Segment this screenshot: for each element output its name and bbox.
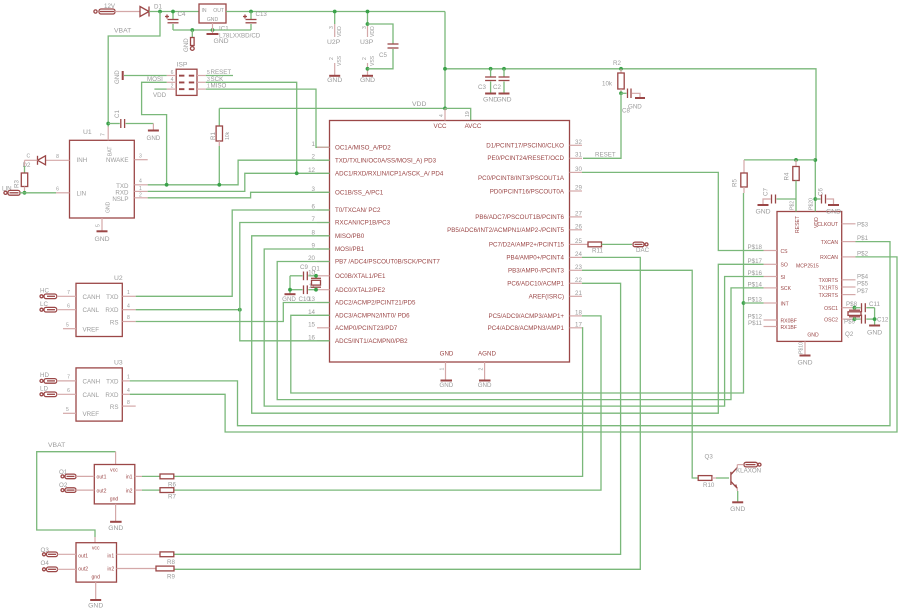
wire SI net MOSI pin9	[264, 249, 763, 406]
svg-text:OC0B/XTAL1/PE1: OC0B/XTAL1/PE1	[335, 273, 386, 280]
svg-text:TXD/TXLIN/OC0A/SS/MOSI_A) PD3: TXD/TXLIN/OC0A/SS/MOSI_A) PD3	[335, 157, 437, 164]
svg-text:10k: 10k	[225, 131, 231, 140]
svg-text:out2: out2	[78, 567, 88, 573]
wire SO net MISO pin8	[252, 236, 764, 413]
svg-text:RX1BF: RX1BF	[781, 325, 797, 331]
svg-text:7: 7	[67, 375, 70, 381]
svg-text:OUT: OUT	[213, 8, 224, 14]
svg-text:GND: GND	[207, 17, 219, 23]
svg-text:C3: C3	[478, 84, 486, 91]
capacitor C12	[855, 315, 889, 324]
connector O2	[59, 482, 94, 492]
svg-text:C1: C1	[114, 110, 121, 118]
wire ISP MISO to pin1	[206, 89, 330, 147]
svg-text:GND: GND	[88, 603, 103, 610]
svg-text:NSLP: NSLP	[112, 196, 128, 203]
svg-text:R8: R8	[167, 559, 175, 566]
svg-text:MOSI/PB1: MOSI/PB1	[335, 246, 365, 253]
svg-text:27: 27	[575, 210, 582, 217]
svg-text:R7: R7	[168, 494, 176, 501]
svg-text:GND: GND	[755, 209, 770, 216]
svg-text:C2: C2	[493, 84, 501, 91]
resistor R1	[210, 108, 231, 184]
MCU right pin numbers	[575, 139, 582, 328]
svg-text:out1: out1	[78, 554, 88, 560]
svg-text:D1/PCINT17/PSCIN0/CLKO: D1/PCINT17/PSCIN0/CLKO	[486, 143, 564, 150]
svg-text:GND: GND	[440, 350, 454, 357]
svg-text:VBAT: VBAT	[114, 28, 131, 35]
svg-text:C13: C13	[256, 11, 268, 18]
svg-text:OC1A/MISO_A/PD2: OC1A/MISO_A/PD2	[335, 145, 391, 152]
svg-text:P$2: P$2	[857, 250, 869, 257]
svg-text:ADC3/ACMPN2/INT0/ PD6: ADC3/ACMPN2/INT0/ PD6	[335, 313, 410, 320]
svg-text:R3: R3	[14, 180, 21, 188]
connector O4	[41, 560, 77, 571]
wire gnd rail under IC1	[173, 29, 251, 31]
svg-text:C9: C9	[300, 264, 308, 271]
svg-text:RXCAN/ICP1B/PC3: RXCAN/ICP1B/PC3	[335, 220, 391, 227]
svg-text:MISO: MISO	[211, 83, 227, 90]
wire crystal cap gnd	[874, 308, 876, 325]
svg-text:R10: R10	[703, 482, 715, 489]
ground MCP GND pin	[797, 341, 812, 366]
svg-text:D2: D2	[23, 162, 31, 169]
svg-text:VREF: VREF	[83, 411, 100, 418]
wire MCU pin7 RXCAN net to pin16	[240, 223, 330, 341]
svg-text:AVCC: AVCC	[465, 123, 482, 130]
svg-text:SI: SI	[781, 275, 786, 281]
wire ISP RESET	[206, 75, 233, 77]
ground via symbol GND	[183, 30, 194, 52]
svg-text:23: 23	[575, 264, 582, 271]
svg-text:GND: GND	[797, 360, 812, 367]
wire U2 TXD to MCU pin6	[122, 295, 135, 297]
capacitor C4	[165, 10, 186, 30]
svg-text:CANH: CANH	[83, 378, 101, 385]
wire U1 NWAKE stub	[134, 159, 147, 161]
svg-text:RS: RS	[110, 404, 119, 411]
svg-text:IC1: IC1	[219, 26, 229, 33]
wire 12V to D1	[115, 11, 140, 13]
svg-text:1: 1	[139, 186, 142, 192]
wire U2 RS to MCU pin13	[122, 321, 135, 323]
wire D1 to IC1 IN	[149, 11, 199, 13]
wire CS net pin30 to MCP	[582, 172, 764, 250]
svg-text:TX0RTS: TX0RTS	[819, 278, 839, 284]
svg-text:PB5/ADC6/INT2/ACMPN1/AMP2-/PCI: PB5/ADC6/INT2/ACMPN1/AMP2-/PCINT5	[447, 227, 564, 234]
svg-text:OSC1: OSC1	[824, 306, 838, 312]
svg-text:2: 2	[479, 368, 485, 371]
connector LIN input	[2, 186, 20, 196]
svg-text:29: 29	[575, 185, 582, 192]
svg-text:Q3: Q3	[705, 454, 714, 461]
driver T1 block	[94, 465, 135, 504]
svg-text:vcc: vcc	[110, 468, 118, 474]
capacitor C5	[368, 24, 399, 69]
svg-text:GND: GND	[867, 330, 882, 337]
power pin U2P VDD	[327, 10, 343, 84]
svg-text:TXD: TXD	[106, 294, 119, 301]
svg-text:R11: R11	[592, 248, 603, 255]
svg-text:GND: GND	[478, 382, 492, 389]
svg-text:ACMP0/PCINT23/PD7: ACMP0/PCINT23/PD7	[335, 325, 398, 332]
op-amp U4 MCP2515 CAN controller	[777, 212, 842, 342]
svg-text:MCP2515: MCP2515	[796, 264, 819, 270]
svg-text:BAT: BAT	[108, 146, 114, 156]
wire reset rail right	[445, 69, 816, 160]
svg-text:VDD: VDD	[370, 26, 376, 37]
wire RESET to MCU pin31	[583, 93, 621, 158]
svg-text:8: 8	[56, 154, 59, 160]
svg-text:ADC5/INT1/ACMPN0/PB2: ADC5/INT1/ACMPN0/PB2	[335, 338, 408, 345]
svg-text:31: 31	[575, 152, 582, 159]
MCP right pin stubs and numbers	[842, 224, 856, 319]
svg-text:4: 4	[139, 179, 142, 185]
svg-text:24: 24	[575, 251, 582, 258]
svg-text:18: 18	[575, 309, 582, 316]
diode D2	[23, 154, 70, 170]
connector O1	[59, 469, 94, 479]
svg-text:PB4/AMP0+/PCINT4: PB4/AMP0+/PCINT4	[506, 255, 564, 262]
svg-text:P$11: P$11	[748, 320, 763, 327]
svg-text:6: 6	[67, 388, 70, 394]
svg-text:SCK: SCK	[781, 286, 792, 292]
svg-text:P$5: P$5	[857, 281, 869, 288]
svg-text:3: 3	[362, 26, 368, 29]
svg-text:ADC0/XTAL2/PE2: ADC0/XTAL2/PE2	[335, 287, 386, 294]
svg-text:VDD: VDD	[337, 26, 343, 37]
svg-text:2: 2	[171, 84, 174, 90]
ground U1 GND pin	[94, 218, 109, 243]
svg-text:GND: GND	[114, 70, 121, 84]
svg-text:1: 1	[312, 141, 316, 148]
wire MCP VDD pin stub top	[814, 160, 816, 212]
wire LIN to U1	[20, 192, 56, 194]
wire U3 TXD to MCP TXCAN	[122, 380, 129, 382]
svg-text:GND: GND	[106, 201, 112, 213]
wire VDD feed rail	[744, 159, 815, 161]
capacitor C1	[108, 110, 153, 128]
svg-text:PB6/ADC7/PSCOUT1B/PCINT6: PB6/ADC7/PSCOUT1B/PCINT6	[475, 214, 564, 221]
svg-text:1: 1	[127, 375, 130, 381]
header ISP	[167, 62, 210, 96]
svg-text:AGND: AGND	[478, 350, 496, 357]
svg-text:C12: C12	[877, 317, 889, 324]
svg-text:GND: GND	[327, 77, 342, 84]
resistor R5	[732, 160, 748, 193]
transistor Q3	[705, 454, 738, 492]
svg-text:CANL: CANL	[83, 307, 100, 314]
wire ISP VDD stub	[154, 88, 166, 90]
ground crystal GND	[282, 294, 296, 303]
svg-text:R1: R1	[210, 132, 217, 140]
svg-text:GND: GND	[807, 333, 819, 339]
svg-text:TXCAN: TXCAN	[821, 240, 839, 246]
svg-text:VDD: VDD	[153, 92, 167, 99]
svg-text:P$1: P$1	[857, 235, 869, 242]
capacitor C6	[815, 188, 841, 216]
resistor R8	[117, 552, 176, 566]
svg-text:out2: out2	[97, 488, 107, 494]
svg-text:10k: 10k	[602, 81, 613, 88]
svg-text:2: 2	[362, 57, 368, 60]
svg-text:GND: GND	[108, 525, 123, 532]
wire ISP SCK to pin12	[206, 82, 297, 173]
wire U2 RXD joins RXCAN net	[122, 309, 135, 311]
svg-text:VCC: VCC	[433, 123, 447, 130]
capacitor C13	[243, 10, 267, 30]
svg-text:Q1: Q1	[312, 266, 321, 273]
MCP left pin stubs and numbers	[764, 251, 778, 327]
svg-text:P$10: P$10	[799, 342, 805, 354]
svg-text:MISO/PB0: MISO/PB0	[335, 233, 365, 240]
svg-text:DAC: DAC	[636, 247, 650, 254]
voltage regulator IC1	[199, 4, 261, 40]
svg-text:VSS: VSS	[370, 55, 376, 66]
svg-text:T0/TXCAN/ PC2: T0/TXCAN/ PC2	[335, 207, 381, 214]
svg-text:4: 4	[171, 77, 174, 83]
svg-text:IN: IN	[202, 8, 207, 14]
power pin U3P VDD	[360, 10, 376, 84]
wire pin17 to R6	[174, 328, 583, 477]
svg-text:TX2RTS: TX2RTS	[819, 293, 839, 299]
svg-text:U3: U3	[114, 360, 123, 367]
svg-text:U2: U2	[114, 275, 123, 282]
svg-text:7: 7	[101, 133, 107, 136]
svg-text:U2P: U2P	[327, 39, 341, 46]
svg-text:O4: O4	[41, 560, 50, 567]
svg-text:U3P: U3P	[360, 39, 374, 46]
svg-text:Q2: Q2	[845, 331, 854, 338]
svg-text:GND: GND	[360, 77, 375, 84]
diode D1	[140, 4, 162, 17]
wire VBAT drop	[108, 12, 160, 127]
svg-text:PE0/PCINT24/RESET/OCD: PE0/PCINT24/RESET/OCD	[487, 155, 564, 162]
svg-text:OSC2: OSC2	[824, 317, 838, 323]
svg-text:R5: R5	[732, 179, 739, 187]
svg-text:OC1B/SS_A/PC1: OC1B/SS_A/PC1	[335, 190, 384, 197]
capacitor C11	[855, 301, 881, 312]
svg-text:1: 1	[127, 290, 130, 296]
svg-text:GND: GND	[628, 104, 642, 111]
svg-text:RXD: RXD	[105, 307, 119, 314]
MCU left pin numbers	[308, 141, 315, 341]
svg-text:5: 5	[66, 407, 69, 413]
svg-text:C11: C11	[869, 301, 880, 308]
svg-text:GND: GND	[496, 97, 511, 104]
svg-text:in2: in2	[126, 488, 133, 494]
wire U1 RXD net to MCU pin12	[134, 190, 147, 192]
svg-text:P$7: P$7	[857, 288, 869, 295]
svg-text:VREF: VREF	[83, 327, 100, 334]
ground IC1 GND	[207, 23, 229, 45]
svg-text:5: 5	[66, 323, 69, 329]
svg-text:2: 2	[139, 193, 142, 199]
svg-text:MOSI: MOSI	[147, 76, 163, 83]
connector 12V supply input	[94, 3, 116, 14]
svg-text:GND: GND	[147, 135, 161, 142]
driver T2 block	[76, 543, 117, 582]
MCU right pin names	[447, 143, 565, 332]
svg-text:22: 22	[575, 277, 582, 284]
svg-text:ISP: ISP	[177, 62, 188, 69]
svg-text:vcc: vcc	[92, 546, 100, 552]
svg-text:PD0/PCINT16/PSCOUT0A: PD0/PCINT16/PSCOUT0A	[490, 188, 565, 195]
node VBAT junction	[158, 10, 162, 14]
wire pin18 to R7	[174, 316, 601, 490]
wire AVCC branch	[445, 108, 471, 120]
svg-text:19: 19	[465, 111, 471, 117]
svg-text:RESET: RESET	[595, 152, 616, 159]
ground driver T2	[88, 582, 103, 609]
svg-text:CANH: CANH	[83, 294, 101, 301]
crystal Q1	[311, 266, 321, 292]
capacitor C8	[621, 89, 645, 115]
capacitor C10	[290, 285, 317, 303]
wire VCC pin stub	[444, 108, 446, 120]
connector HD	[40, 372, 76, 383]
transistor U2 CAN transceiver	[76, 275, 123, 337]
resistor R7	[135, 488, 177, 501]
svg-text:4: 4	[127, 388, 130, 394]
wire crystal gnd	[289, 276, 291, 294]
svg-text:SO: SO	[781, 263, 788, 269]
resistor R10	[698, 476, 729, 489]
connector HC	[40, 288, 76, 299]
svg-text:PC7/D2A/AMP2+/PCINT15: PC7/D2A/AMP2+/PCINT15	[489, 242, 565, 249]
svg-text:D1: D1	[154, 4, 162, 11]
svg-text:6: 6	[56, 187, 59, 193]
svg-text:ADC1/RXD/RXLIN/ICP1A/SCK_A/ PD: ADC1/RXD/RXLIN/ICP1A/SCK_A/ PD4	[335, 171, 444, 178]
wire pin24 to R9	[174, 257, 641, 569]
resistor R3	[14, 160, 28, 194]
svg-text:26: 26	[575, 223, 582, 230]
svg-text:TX1RTS: TX1RTS	[819, 285, 839, 291]
svg-text:PB3/AMP0-/PCINT3: PB3/AMP0-/PCINT3	[508, 268, 565, 275]
ground Q2 GND	[867, 326, 882, 337]
svg-text:gnd: gnd	[91, 575, 100, 581]
connector LC	[40, 301, 76, 312]
connector KLAXON	[736, 462, 761, 474]
svg-text:30: 30	[575, 166, 582, 173]
svg-text:P$20: P$20	[809, 198, 815, 210]
resistor R9	[117, 566, 176, 580]
svg-text:5: 5	[96, 224, 102, 227]
resistor R6	[135, 474, 177, 488]
svg-text:21: 21	[575, 290, 582, 297]
svg-text:P$2: P$2	[790, 201, 796, 210]
capacitor C9	[290, 264, 317, 280]
svg-text:out1: out1	[97, 475, 107, 481]
svg-text:in1: in1	[107, 554, 114, 560]
svg-text:INH: INH	[77, 157, 88, 164]
MCU right pin stubs	[570, 145, 583, 327]
svg-text:32: 32	[575, 139, 582, 146]
wire U1 BAT pin	[107, 127, 109, 141]
svg-text:VBAT: VBAT	[48, 442, 65, 449]
MCU left pin stubs	[317, 147, 330, 340]
svg-text:LIN: LIN	[77, 190, 87, 197]
wire U3 VREF stub	[63, 412, 76, 414]
svg-text:3: 3	[139, 154, 142, 160]
svg-text:C5: C5	[379, 52, 387, 59]
wire INT net pin14 to MCP INT and R5	[291, 193, 744, 393]
svg-text:8: 8	[127, 400, 130, 406]
capacitor C2	[493, 67, 512, 104]
wire U3 RS stub	[122, 405, 135, 407]
svg-text:CLKOUT: CLKOUT	[817, 222, 838, 228]
svg-text:RXD: RXD	[105, 392, 119, 399]
svg-text:PC6/ADC10/ACMP1: PC6/ADC10/ACMP1	[507, 281, 564, 288]
wire U3 RXD to MCP RXCAN	[122, 393, 129, 395]
svg-text:12V: 12V	[104, 3, 116, 10]
wire U1 NSLP net to MCU pin3	[134, 197, 147, 199]
svg-text:2: 2	[329, 57, 335, 60]
svg-text:in1: in1	[126, 475, 133, 481]
svg-text:RXCAN: RXCAN	[820, 255, 838, 261]
crystal Q2	[845, 306, 861, 338]
svg-text:TXD: TXD	[106, 378, 119, 385]
svg-text:ADC2/ACMP2/PCINT21/PD5: ADC2/ACMP2/PCINT21/PD5	[335, 300, 416, 307]
svg-text:C: C	[27, 154, 31, 160]
svg-text:GND: GND	[439, 382, 453, 389]
svg-text:7: 7	[67, 290, 70, 296]
transistor U1 LIN transceiver	[70, 129, 135, 218]
svg-text:VSS: VSS	[337, 55, 343, 66]
svg-text:25: 25	[575, 238, 582, 245]
resistor R4	[784, 160, 800, 199]
op-amp IC2 main MCU box	[330, 121, 570, 363]
svg-text:PC4/ADC8/ACMPN3/AMP1: PC4/ADC8/ACMPN3/AMP1	[488, 325, 565, 332]
capacitor C7	[755, 188, 796, 216]
svg-text:GND: GND	[183, 38, 190, 52]
svg-text:3: 3	[329, 26, 335, 29]
svg-text:8: 8	[127, 315, 130, 321]
connector DAC	[633, 242, 650, 254]
ground ISP GND	[114, 70, 167, 84]
MCU left pin names	[335, 145, 444, 346]
svg-text:C8: C8	[622, 108, 630, 115]
wire VDD rail	[219, 107, 445, 109]
svg-text:4: 4	[439, 114, 445, 117]
svg-text:P$3: P$3	[857, 221, 869, 228]
svg-text:17: 17	[575, 321, 582, 328]
svg-text:PC5/ADC9/ACMP3/AMP1+: PC5/ADC9/ACMP3/AMP1+	[489, 313, 565, 320]
svg-text:6: 6	[171, 70, 174, 76]
svg-text:GND: GND	[730, 506, 745, 513]
svg-text:R4: R4	[784, 172, 791, 180]
svg-text:CS: CS	[781, 249, 789, 255]
wire SCK net pin20	[277, 262, 763, 400]
svg-text:AREF(ISRC): AREF(ISRC)	[529, 294, 564, 301]
connector O3	[41, 547, 77, 556]
wire pin22 to R8	[174, 283, 621, 554]
svg-text:P$4: P$4	[857, 273, 869, 280]
wire pin23 to R10	[582, 270, 698, 478]
ground Q3 emitter GND	[730, 491, 745, 513]
svg-text:U1: U1	[83, 129, 92, 136]
transistor U3 CAN transceiver	[76, 360, 123, 422]
svg-text:RESET: RESET	[795, 216, 801, 233]
svg-text:4: 4	[127, 303, 130, 309]
wire U1 TXD net to MCU pin2	[134, 184, 147, 186]
wire IC1 OUT to rail	[226, 11, 445, 13]
svg-text:C4: C4	[178, 11, 186, 18]
svg-text:CANL: CANL	[83, 392, 100, 399]
svg-text:GND: GND	[213, 38, 228, 45]
svg-text:GND: GND	[94, 236, 109, 243]
ground MCU AGND pin	[478, 362, 492, 389]
